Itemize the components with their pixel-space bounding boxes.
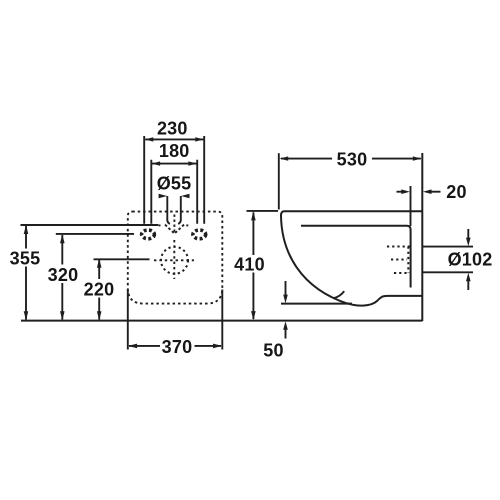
svg-text:320: 320 xyxy=(48,265,79,285)
svg-text:50: 50 xyxy=(263,340,283,360)
svg-text:180: 180 xyxy=(159,141,190,161)
svg-text:220: 220 xyxy=(84,280,115,300)
svg-text:230: 230 xyxy=(157,119,188,139)
svg-text:Ø55: Ø55 xyxy=(157,173,192,193)
svg-text:410: 410 xyxy=(234,254,265,274)
svg-text:355: 355 xyxy=(10,249,41,269)
svg-text:Ø102: Ø102 xyxy=(448,250,493,270)
svg-text:370: 370 xyxy=(162,337,193,357)
svg-text:530: 530 xyxy=(337,150,368,170)
svg-text:20: 20 xyxy=(446,182,466,202)
